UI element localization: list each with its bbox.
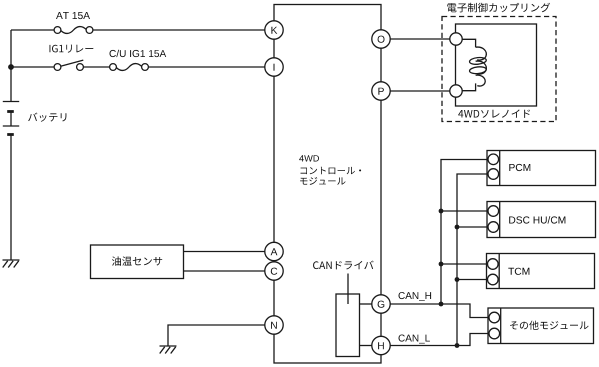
leader line CAN driver label bbox=[347, 274, 349, 305]
DSC HU/CM pin 2 bbox=[488, 222, 499, 233]
wire CAN_H branch to TCM bbox=[441, 263, 486, 265]
terminal N bbox=[265, 316, 283, 334]
TCM box bbox=[487, 254, 595, 289]
wire CAN driver to terminal H bbox=[360, 345, 372, 347]
oil temperature sensor box bbox=[91, 245, 184, 279]
solenoid pin (upper) bbox=[450, 33, 462, 45]
junction CAN_H node DSC bbox=[439, 209, 444, 214]
PCM pin 2 bbox=[488, 169, 499, 180]
label electronic control coupling bbox=[447, 3, 550, 13]
junction CAN_L node DSC bbox=[455, 225, 460, 230]
battery bbox=[3, 102, 19, 135]
label IG1 relay bbox=[50, 45, 94, 53]
4WD solenoid box bbox=[456, 24, 537, 106]
label battery bbox=[28, 113, 66, 122]
4WD control module box bbox=[274, 5, 381, 364]
relay IG1 contact bbox=[54, 60, 83, 70]
wire relay to fuse C/U IG1 15A bbox=[83, 66, 109, 68]
wire battery negative to ground bbox=[10, 135, 12, 261]
junction CAN_L node TCM bbox=[455, 277, 460, 282]
terminal P bbox=[372, 82, 390, 100]
wire battery positive riser bbox=[10, 30, 12, 102]
TCM pin 1 bbox=[488, 259, 499, 270]
wire terminal N to ground bbox=[168, 325, 265, 346]
wire sensor to terminal A bbox=[184, 251, 265, 253]
terminal K bbox=[265, 21, 283, 39]
ground (battery) bbox=[3, 260, 20, 268]
ground (N) bbox=[160, 346, 177, 354]
wire fuse C/U IG1 15A to terminal I bbox=[148, 66, 264, 68]
junction CAN_L node at H wire bbox=[455, 343, 460, 348]
wire terminal P to solenoid bbox=[390, 90, 450, 92]
wire terminal O to solenoid bbox=[390, 38, 450, 40]
other module pin 1 bbox=[489, 312, 500, 323]
wire sensor to terminal C bbox=[184, 270, 265, 272]
other module box bbox=[488, 308, 594, 344]
junction battery feed node bbox=[8, 64, 14, 70]
label module line 2 bbox=[301, 167, 362, 175]
wire CAN driver to terminal G bbox=[360, 303, 372, 305]
terminal I bbox=[265, 58, 283, 76]
wire CAN_H from terminal G bbox=[390, 304, 488, 318]
solenoid coil L1 bbox=[462, 39, 486, 90]
label other module bbox=[510, 321, 589, 330]
solenoid pin (lower) bbox=[450, 85, 462, 97]
terminal C bbox=[265, 262, 283, 280]
terminal O bbox=[372, 30, 390, 48]
label CAN driver bbox=[313, 261, 374, 270]
DSC HU/CM pin 1 bbox=[488, 206, 499, 217]
CAN driver block bbox=[336, 294, 360, 357]
label 4WD solenoid bbox=[458, 109, 530, 118]
PCM pin 1 bbox=[488, 154, 499, 165]
terminal H bbox=[372, 336, 390, 354]
terminal G bbox=[372, 295, 390, 313]
wire CAN_L branch to TCM bbox=[457, 279, 486, 281]
wire CAN_L from terminal H bbox=[390, 334, 488, 346]
electronic control coupling dashed box bbox=[442, 17, 556, 122]
TCM pin 2 bbox=[488, 274, 499, 285]
wire CAN_L branch to DSC bbox=[457, 226, 487, 228]
label CAN_H bbox=[399, 292, 432, 301]
fuse C/U IG1 15A bbox=[110, 64, 149, 71]
PCM box bbox=[487, 151, 596, 186]
label TCM bbox=[508, 268, 529, 275]
label CAN_L bbox=[399, 335, 430, 344]
wire fuse AT 15A to terminal K bbox=[93, 29, 265, 31]
wire CAN_H branch to DSC bbox=[441, 210, 487, 212]
wire battery feed to IG1 relay bbox=[11, 66, 54, 68]
fuse AT 15A bbox=[54, 27, 93, 34]
wire CAN_H trunk bbox=[441, 160, 487, 305]
label module line 3 bbox=[300, 177, 345, 185]
label 4WD (module line 1) bbox=[299, 155, 319, 161]
wire CAN_L trunk bbox=[457, 174, 487, 346]
label oil temp sensor bbox=[112, 256, 162, 265]
junction CAN_H node at G wire bbox=[439, 302, 444, 307]
terminal A bbox=[265, 242, 283, 260]
DSC HU/CM box bbox=[487, 202, 596, 238]
label AT 15A bbox=[56, 12, 90, 19]
other module pin 2 bbox=[489, 328, 500, 339]
label C/U IG1 15A bbox=[110, 50, 167, 57]
junction CAN_H node TCM bbox=[439, 262, 444, 267]
label PCM bbox=[509, 164, 530, 171]
label DSC HU/CM bbox=[509, 216, 565, 224]
wire battery feed to fuse AT 15A bbox=[11, 29, 54, 31]
